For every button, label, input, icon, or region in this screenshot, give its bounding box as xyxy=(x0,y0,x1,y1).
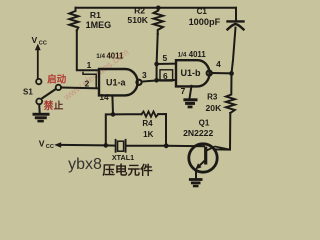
wire R3 to collector corner xyxy=(215,113,230,150)
transistor Q1 xyxy=(189,144,230,172)
node pin4/R3 junction xyxy=(229,71,234,76)
svg-text:止: 止 xyxy=(54,100,64,112)
paper background xyxy=(0,0,248,194)
label C1 xyxy=(189,7,221,27)
node B Vcc/XTAL junction xyxy=(104,143,109,148)
svg-text:1: 1 xyxy=(87,60,92,70)
svg-text:CC: CC xyxy=(46,144,54,150)
ground Q1 emitter xyxy=(189,178,203,187)
svg-text:2: 2 xyxy=(85,78,90,88)
wire R2 down to junctions xyxy=(157,34,158,80)
svg-text:Q1: Q1 xyxy=(199,118,210,127)
svg-text:U1-a: U1-a xyxy=(106,78,127,88)
svg-text:启动: 启动 xyxy=(47,74,67,86)
pin2 callout box xyxy=(83,72,96,88)
svg-text:1/4: 1/4 xyxy=(178,52,187,59)
node pin3/pin6 junction xyxy=(154,78,159,83)
wire junctionA elbow to junctionB xyxy=(106,114,113,145)
resistor R1 xyxy=(69,8,78,31)
wire crystal to junctionC xyxy=(127,145,167,147)
red watermark www.elecfans.com xyxy=(61,47,131,104)
svg-text:20K: 20K xyxy=(206,103,223,113)
label R2 xyxy=(127,5,148,25)
wire switch to pin2 xyxy=(61,87,99,90)
svg-text:R4: R4 xyxy=(142,119,153,128)
node R2 top rail junction xyxy=(156,6,161,11)
label R1 xyxy=(86,10,112,30)
resistor R2 xyxy=(154,8,164,34)
node A pin14/R4 junction xyxy=(111,112,116,117)
svg-text:ybx8: ybx8 xyxy=(68,156,102,173)
wire junctionB to crystal xyxy=(106,144,115,146)
wire junctionA to R4 xyxy=(113,113,142,115)
svg-text:R2: R2 xyxy=(134,5,145,15)
wire R4 right elbow down xyxy=(158,114,166,146)
op-amp U1-a (NAND gate) xyxy=(99,69,142,95)
wire pin4 output U1-b xyxy=(212,72,232,74)
wire pin6 xyxy=(157,79,176,81)
svg-text:4011: 4011 xyxy=(106,51,124,60)
pin6 callout box xyxy=(160,70,173,81)
svg-text:1/4: 1/4 xyxy=(96,53,105,60)
svg-text:4011: 4011 xyxy=(189,50,207,59)
wire pin5 xyxy=(157,63,176,65)
svg-text:1K: 1K xyxy=(143,130,153,139)
svg-text:V: V xyxy=(39,139,45,149)
resistor R4 xyxy=(142,112,159,117)
svg-text:C1: C1 xyxy=(197,7,208,16)
switch S1 xyxy=(36,79,61,104)
svg-text:U1-b: U1-b xyxy=(181,68,202,78)
wire S1 top contact to Vcc arrow xyxy=(37,49,39,79)
svg-text:V: V xyxy=(32,35,38,45)
svg-text:禁: 禁 xyxy=(44,100,54,112)
svg-text:R1: R1 xyxy=(90,10,101,20)
svg-text:5: 5 xyxy=(162,53,167,63)
wire R1 to pin1 xyxy=(77,31,99,71)
svg-text:14: 14 xyxy=(99,92,109,102)
op-amp U1-b (NAND gate) xyxy=(176,60,212,86)
svg-text:S1: S1 xyxy=(23,87,33,96)
wire pin14 xyxy=(111,96,114,115)
svg-text:4: 4 xyxy=(216,59,221,69)
node C R4/base junction xyxy=(164,143,169,148)
wire pin7 to ground xyxy=(190,86,192,99)
ground S1 xyxy=(33,113,50,123)
wire right rail mid xyxy=(232,28,236,74)
svg-text:3: 3 xyxy=(142,70,147,80)
svg-text:7: 7 xyxy=(181,86,186,96)
wire base Q1 xyxy=(166,145,204,147)
svg-text:R3: R3 xyxy=(207,92,218,101)
svg-text:压电元件: 压电元件 xyxy=(102,163,153,178)
node pin5 junction xyxy=(154,62,159,67)
resistor R3 xyxy=(226,73,235,113)
svg-text:CC: CC xyxy=(39,40,47,46)
svg-text:1MEG: 1MEG xyxy=(86,20,112,30)
wire pin3 output U1-a xyxy=(142,81,157,82)
svg-text:XTAL1: XTAL1 xyxy=(112,153,134,162)
wire Vcc arrow to junctionB xyxy=(61,144,106,147)
wire S1 bottom contact to ground xyxy=(38,104,41,112)
svg-text:2N2222: 2N2222 xyxy=(183,128,213,138)
svg-text:6: 6 xyxy=(163,71,168,81)
wire emitter to ground xyxy=(195,171,197,179)
crystal XTAL1 xyxy=(116,140,126,152)
svg-text:510K: 510K xyxy=(127,15,148,25)
wire right rail upper xyxy=(235,8,237,20)
ground pin7 xyxy=(183,98,197,108)
capacitor C1 xyxy=(228,21,244,29)
Vcc arrow bottom-left xyxy=(54,142,61,148)
Vcc arrow top xyxy=(35,44,41,51)
svg-text:1000pF: 1000pF xyxy=(189,17,221,27)
wire top rail xyxy=(76,7,237,9)
